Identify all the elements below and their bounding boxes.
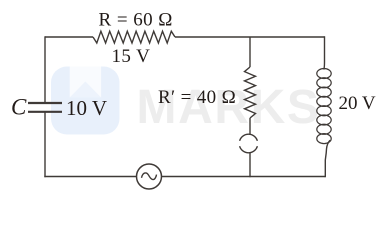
wire middle branch lower [249, 153, 251, 177]
AC source (circle with sine) [137, 164, 162, 189]
wire bottom-left horizontal [44, 176, 136, 178]
svg-text:20 V: 20 V [339, 93, 376, 114]
wire top-middle horizontal [175, 36, 325, 38]
wire bottom-right horizontal [162, 176, 326, 178]
wire middle branch upper [249, 37, 251, 67]
wire right lower vertical [325, 140, 330, 177]
svg-text:C: C [11, 94, 27, 119]
watermark logo squircle [51, 67, 120, 135]
wire middle branch between resistor and lamp [249, 118, 251, 135]
capacitor C plates [28, 103, 62, 112]
lamp (circle with side gaps) [240, 134, 258, 153]
wire right upper vertical [323, 36, 326, 69]
svg-text:R = 60 Ω: R = 60 Ω [99, 10, 173, 31]
wire top-left horizontal [45, 36, 93, 38]
resistor R' (zigzag, vertical) [245, 67, 256, 118]
svg-text:10 V: 10 V [66, 96, 107, 120]
inductor L (coil) [317, 69, 331, 144]
wire left lower vertical [44, 112, 46, 177]
resistor R (zigzag, top) [93, 31, 175, 43]
watermark text MARKS [137, 81, 321, 134]
svg-text:15 V: 15 V [112, 46, 151, 67]
svg-text:R′ = 40 Ω: R′ = 40 Ω [158, 87, 236, 108]
wire left upper vertical [44, 36, 46, 103]
